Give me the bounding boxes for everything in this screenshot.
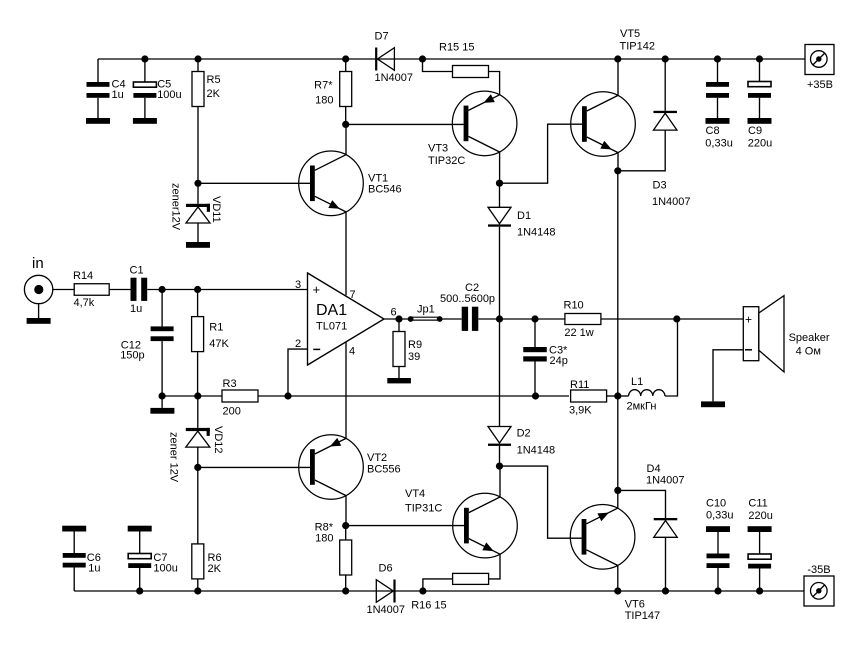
label VD12 value: [168, 432, 180, 483]
svg-text:180: 180: [315, 533, 333, 545]
svg-text:R1: R1: [209, 322, 223, 334]
capacitor C8: [706, 59, 729, 118]
ground below C5: [133, 118, 157, 124]
capacitor C5 (electrolytic): [133, 59, 156, 118]
capacitor C3*: [523, 319, 547, 396]
svg-text:100u: 100u: [157, 89, 181, 101]
label R1 value: [209, 322, 229, 351]
resistor R15: [423, 59, 500, 95]
label C5 value: [157, 79, 181, 102]
svg-text:VT5: VT5: [620, 28, 640, 40]
svg-text:+: +: [745, 312, 752, 326]
label R10 value: [564, 300, 594, 340]
svg-text:3: 3: [295, 279, 301, 291]
svg-text:4,7k: 4,7k: [74, 297, 95, 309]
svg-text:VD11: VD11: [210, 196, 222, 223]
label VT2: [367, 452, 401, 476]
wire C1 to op-amp pin3: [147, 289, 307, 291]
node op-amp pin2 junction: [284, 392, 291, 399]
ground below C9: [748, 118, 772, 124]
capacitor C12: [151, 290, 174, 397]
svg-text:180: 180: [315, 95, 333, 107]
svg-text:1u: 1u: [130, 303, 142, 315]
svg-text:1N4007: 1N4007: [375, 72, 414, 84]
label VT6: [625, 599, 660, 623]
wire op-amp pin2: [288, 349, 308, 396]
svg-text:2мкГн: 2мкГн: [627, 401, 657, 413]
svg-text:TL071: TL071: [316, 321, 347, 333]
svg-text:0,33u: 0,33u: [705, 137, 733, 149]
label R15 value: [439, 41, 474, 53]
wire VT3 collector down: [499, 152, 501, 183]
svg-text:TIP31C: TIP31C: [405, 503, 442, 515]
node pin6 junction: [395, 315, 402, 322]
zener diode VD11: [186, 183, 210, 242]
label D6: [367, 563, 406, 616]
svg-text:500..5600p: 500..5600p: [440, 293, 495, 305]
wire speaker minus to ground: [713, 350, 743, 402]
svg-text:1N4007: 1N4007: [367, 604, 406, 616]
label C2 value: [440, 282, 495, 305]
connector +35B: [805, 45, 834, 75]
label C8 value: [705, 125, 733, 149]
node top rail / post-D7 junction: [419, 55, 426, 62]
label Jp1: [417, 304, 435, 316]
diode D3: [618, 59, 677, 171]
svg-text:TIP32C: TIP32C: [428, 155, 465, 167]
svg-text:200: 200: [223, 406, 241, 418]
wire op-amp pin4 to VT2 emitter: [345, 342, 347, 438]
label D2: [517, 428, 556, 457]
svg-text:Jp1: Jp1: [417, 304, 435, 316]
label C3* value: [549, 345, 568, 368]
label VT5: [620, 28, 655, 53]
node bottom rail / C10 junction: [714, 587, 721, 594]
resistor R11: [571, 390, 607, 402]
svg-text:BC546: BC546: [368, 184, 402, 196]
wire -35V bottom rail: [74, 590, 804, 592]
svg-text:4 Ом: 4 Ом: [796, 346, 821, 358]
wire VT6 emitter down: [617, 565, 619, 591]
capacitor C1: [131, 278, 148, 301]
transistor VT5 (NPN TIP142): [571, 92, 636, 157]
label D3: [652, 180, 691, 209]
resistor R8*: [340, 526, 352, 591]
node top rail / C5 junction: [141, 55, 148, 62]
label R9 value: [408, 339, 422, 363]
node R7/VT1 collector/VT3 base junction: [342, 121, 349, 128]
svg-text:C11: C11: [748, 498, 767, 510]
resistor R14: [74, 284, 109, 296]
svg-text:1N4007: 1N4007: [646, 475, 685, 487]
svg-text:1u: 1u: [112, 89, 124, 101]
wire VT4 emitter to R16: [489, 554, 500, 579]
diode D7: [375, 48, 394, 71]
wire output line VT5 to mid rail: [617, 171, 619, 396]
wire junction to VT6 base: [500, 466, 582, 538]
transistor VT4 (NPN TIP31C): [453, 493, 518, 558]
wire junction to VT4 base: [346, 525, 464, 527]
svg-text:D7: D7: [375, 31, 389, 43]
svg-text:R10: R10: [564, 300, 584, 312]
svg-text:TIP142: TIP142: [620, 41, 655, 53]
node D2 / VT4 collector junction: [496, 463, 503, 470]
svg-text:VT3: VT3: [428, 143, 448, 155]
label pin 4: [349, 346, 355, 358]
wire output line mid rail to D4 junction: [617, 396, 619, 490]
label C9 value: [748, 125, 772, 149]
label R5 value: [207, 74, 221, 100]
diode D4: [618, 490, 677, 591]
svg-text:TIP147: TIP147: [625, 610, 660, 622]
wire VT5 emitter down (output line): [617, 153, 619, 171]
node R5 / VD11 / VT1 base junction: [194, 180, 201, 187]
label pin 6: [391, 307, 397, 319]
label C1 value: [130, 265, 144, 316]
diode D2: [488, 319, 511, 466]
label R7* value: [314, 80, 333, 107]
wire VT1 emitter to op-amp pin7: [345, 212, 347, 295]
ground below C4: [86, 118, 110, 124]
label R6 value: [208, 552, 222, 575]
capacitor C11 (electrolytic): [748, 526, 772, 591]
capacitor C9 (electrolytic): [748, 59, 771, 118]
label C12 value: [120, 340, 144, 362]
label R14 value: [73, 270, 95, 309]
svg-text:+35B: +35B: [807, 79, 833, 91]
node bottom rail / C11 junction: [756, 587, 763, 594]
label C4 value: [112, 79, 126, 102]
node C3 / mid rail junction: [532, 392, 539, 399]
label +35B: [807, 79, 833, 91]
svg-text:22 1w: 22 1w: [564, 327, 593, 339]
wire mid rail R3 to R11: [258, 395, 569, 397]
wire VT6 collector: [617, 490, 619, 508]
wire R7 junction to VT3 base: [346, 123, 464, 125]
label L1 value: [627, 376, 657, 413]
label VT1: [368, 173, 402, 196]
transistor VT3 (PNP TIP32C): [452, 91, 517, 156]
wire C2 to R10: [478, 318, 565, 320]
op-amp DA1 (TL071): [308, 273, 385, 365]
svg-text:6: 6: [391, 307, 397, 319]
capacitor C2: [462, 307, 479, 331]
wire junction to VT5 base: [500, 124, 583, 183]
node top rail / D3 junction: [662, 55, 669, 62]
label in: [32, 255, 44, 272]
label R8* value: [315, 522, 334, 545]
svg-text:2K: 2K: [208, 563, 222, 575]
node top rail / R5 junction: [194, 55, 201, 62]
svg-text:DA1: DA1: [316, 302, 347, 319]
svg-text:220u: 220u: [748, 510, 772, 522]
ground below in connector: [27, 318, 51, 324]
node VT5 emitter / D3 junction: [614, 167, 621, 174]
node output line / R11 / L1 junction: [614, 392, 621, 399]
node bottom rail / R6 junction: [194, 587, 201, 594]
svg-text:VT6: VT6: [625, 599, 645, 611]
wire R10 to speaker: [601, 318, 743, 320]
resistor R5: [192, 59, 204, 183]
ground below VD11: [186, 242, 210, 248]
wire VT1 collector up: [345, 124, 347, 154]
svg-text:2: 2: [295, 338, 301, 350]
svg-text:220u: 220u: [748, 137, 772, 149]
svg-text:100u: 100u: [153, 563, 177, 575]
svg-text:R5: R5: [207, 74, 221, 86]
label R3 value: [223, 378, 241, 418]
svg-text:4: 4: [349, 346, 355, 358]
resistor R7*: [340, 59, 352, 124]
diode D6: [376, 580, 395, 603]
wire R14 to C1: [109, 289, 130, 291]
svg-text:D1: D1: [517, 210, 531, 222]
wire R16 to bottom rail: [423, 579, 453, 591]
node R1 / VD12 junction: [194, 392, 201, 399]
capacitor C7 (electrolytic): [128, 526, 152, 591]
label VT4: [405, 488, 442, 515]
svg-text:VD12: VD12: [212, 426, 224, 454]
label C10 value: [706, 498, 734, 522]
svg-text:R15 15: R15 15: [439, 41, 474, 53]
svg-text:D2: D2: [517, 428, 531, 440]
node top rail / C8 junction: [714, 55, 721, 62]
svg-text:C9: C9: [748, 125, 762, 137]
node R1 junction: [194, 286, 201, 293]
svg-text:R3: R3: [223, 378, 237, 390]
label C6 value: [87, 552, 101, 575]
wire R11 to output line: [607, 395, 618, 397]
node bottom rail / R16 junction: [419, 587, 426, 594]
svg-text:1N4007: 1N4007: [652, 196, 691, 208]
node speaker / L1 junction: [673, 315, 680, 322]
svg-text:C1: C1: [130, 265, 144, 277]
label C11 value: [748, 498, 772, 523]
label C7 value: [153, 552, 177, 575]
svg-text:1N4148: 1N4148: [517, 445, 556, 457]
svg-text:24p: 24p: [550, 355, 568, 367]
svg-text:D3: D3: [653, 180, 667, 192]
node VT2 collector / R8 / VT4 base junction: [342, 522, 349, 529]
node bottom rail / D4 junction: [662, 587, 669, 594]
svg-text:R14: R14: [73, 270, 93, 282]
node top rail / R7 junction: [342, 55, 349, 62]
svg-text:in: in: [32, 255, 44, 272]
svg-text:1u: 1u: [88, 563, 100, 575]
svg-text:2K: 2K: [207, 88, 221, 100]
node D4 / VT6 collector junction: [614, 487, 621, 494]
svg-text:150p: 150p: [120, 350, 144, 362]
svg-text:D6: D6: [379, 563, 393, 575]
svg-text:zener12V: zener12V: [170, 183, 182, 231]
capacitor C6: [62, 526, 86, 591]
wire in to R14: [53, 289, 74, 291]
svg-text:D4: D4: [647, 463, 661, 475]
svg-text:+: +: [313, 282, 321, 297]
wire L1 up to speaker junction: [0, 0, 1, 1]
svg-text:C8: C8: [706, 125, 720, 137]
wire op-amp pin6 output: [384, 318, 411, 320]
resistor R10: [565, 314, 601, 325]
svg-text:VT4: VT4: [405, 488, 425, 500]
transistor VT1 (NPN BC546): [299, 151, 364, 216]
node VD12 / R6 / VT2 base junction: [194, 464, 201, 471]
node top rail / VT5 collector junction: [614, 55, 621, 62]
wire mid rail left: [162, 395, 222, 397]
node C12 junction: [159, 286, 166, 293]
label R16 value: [411, 600, 446, 612]
resistor R3: [222, 390, 258, 402]
svg-text:R7*: R7*: [314, 80, 333, 92]
ground below C12: [150, 396, 174, 414]
wire junction to VT2 base: [198, 466, 310, 468]
node C12 / mid rail junction: [159, 392, 166, 399]
label VD11 value: [170, 183, 182, 231]
svg-text:C10: C10: [706, 498, 726, 510]
jumper Jp1: [408, 316, 443, 322]
node VT3 collector / D1 / VT5 base junction: [496, 180, 503, 187]
label VD11: [210, 196, 222, 223]
svg-text:-35B: -35B: [807, 564, 830, 576]
connector -35B: [804, 576, 834, 606]
svg-text:Speaker: Speaker: [789, 332, 830, 344]
node bottom rail / VT6 emitter junction: [614, 587, 621, 594]
wire junction to VT1 base: [198, 182, 310, 184]
label R11 value: [569, 379, 592, 417]
label pin 3: [295, 279, 301, 291]
wire VT5 collector up: [617, 59, 619, 95]
svg-text:BC556: BC556: [367, 464, 401, 476]
svg-text:47K: 47K: [209, 338, 229, 350]
label pin 7: [350, 289, 356, 301]
node C3 top junction: [531, 315, 538, 322]
transistor VT2 (PNP BC556): [299, 435, 364, 500]
wire Jp1 to C2: [440, 318, 462, 320]
label D4: [646, 463, 685, 487]
inductor L1: [618, 319, 678, 396]
svg-text:39: 39: [408, 351, 420, 363]
diode D1: [488, 183, 511, 319]
svg-text:3,9K: 3,9K: [569, 405, 592, 417]
label -35B: [807, 564, 830, 576]
speaker (4 Ohm): [743, 296, 784, 372]
resistor R1: [192, 290, 204, 397]
svg-text:VT2: VT2: [367, 452, 387, 464]
label Speaker: [789, 332, 830, 358]
resistor R9: [393, 319, 405, 378]
svg-text:1N4148: 1N4148: [517, 227, 556, 239]
ground below R9: [387, 378, 411, 383]
transistor VT6 (PNP TIP147): [570, 505, 635, 570]
node top rail / C9 junction: [756, 55, 763, 62]
svg-text:R9: R9: [408, 339, 422, 351]
svg-text:0,33u: 0,33u: [706, 509, 734, 521]
label pin 2: [295, 338, 301, 350]
wire VT4 collector up: [499, 466, 501, 497]
resistor R6: [192, 467, 204, 591]
node bottom rail / R8 junction: [342, 587, 349, 594]
svg-text:R16 15: R16 15: [411, 600, 446, 612]
label D7: [375, 31, 414, 85]
svg-text:zener 12V: zener 12V: [168, 432, 180, 483]
svg-text:L1: L1: [631, 376, 643, 388]
node D1-D2 / output row junction: [496, 315, 503, 322]
svg-text:R11: R11: [570, 379, 589, 391]
zener diode VD12: [186, 396, 210, 467]
ground below C8: [706, 118, 730, 124]
capacitor C10: [706, 526, 730, 591]
capacitor C4: [87, 59, 110, 118]
svg-text:7: 7: [350, 289, 356, 301]
label D1: [517, 210, 556, 239]
node bottom rail / C7 junction: [136, 587, 143, 594]
ground below speaker: [701, 401, 725, 407]
wire +35V top rail: [98, 58, 805, 60]
label VT3: [428, 143, 465, 168]
resistor R16: [453, 573, 489, 584]
connector in (RCA jack): [24, 275, 52, 318]
wire VT2 collector down: [345, 496, 347, 526]
label VD12: [212, 426, 224, 454]
